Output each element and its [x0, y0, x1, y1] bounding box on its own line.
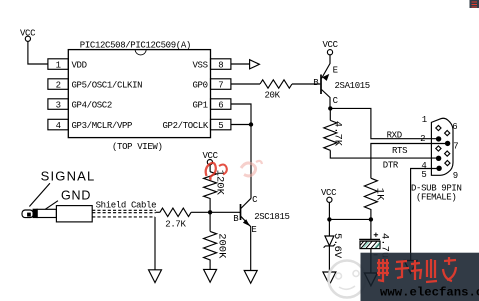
- CN1 hole 5 (GND): [436, 166, 441, 171]
- wire shield to ground: [154, 217, 156, 270]
- ground G2 below Q2: [244, 271, 257, 284]
- svg-text:200K: 200K: [215, 233, 227, 259]
- CN1 hole 1: [436, 125, 441, 130]
- pin 3 box: [48, 99, 68, 110]
- svg-text:2.7K: 2.7K: [165, 219, 186, 229]
- ground G6 below C1: [364, 273, 377, 286]
- wire DTR net: 4.7K to DB9 pin4: [330, 150, 438, 158]
- svg-text:1K: 1K: [373, 188, 385, 201]
- wire VCC4 rail: [329, 202, 371, 219]
- svg-text:4.7K: 4.7K: [332, 121, 344, 147]
- power VCC4 (supply rail): [327, 197, 332, 202]
- transistor Q1 2SA1015 PNP: [320, 75, 322, 95]
- resistor R3 1K: [364, 178, 377, 219]
- svg-text:VCC: VCC: [20, 28, 36, 38]
- svg-text:7: 7: [453, 142, 458, 152]
- power VCC1 top-left circle: [25, 36, 30, 41]
- node N3 (base divider junction): [208, 210, 212, 214]
- svg-text:5: 5: [218, 121, 223, 131]
- wire N2 to Q2 collector: [250, 125, 252, 199]
- CN1 hole 2 (RXD): [436, 136, 441, 141]
- svg-text:(TOP VIEW): (TOP VIEW): [112, 142, 163, 152]
- wire DB9 pin5 to ground: [411, 169, 440, 261]
- signal jack J1 (3.5mm plug): [22, 210, 33, 218]
- transistor Q2 2SC1815 NPN: [240, 204, 242, 220]
- resistor R2 4.7K: [324, 108, 337, 150]
- pin 4 box: [48, 119, 68, 130]
- wire shield cable (dashed): [92, 209, 156, 211]
- pin 2 box: [48, 79, 68, 90]
- svg-text:1: 1: [422, 115, 427, 125]
- svg-text:RTS: RTS: [392, 146, 407, 156]
- svg-text:SIGNAL: SIGNAL: [41, 169, 96, 184]
- node N5: [369, 217, 373, 221]
- CN1 hole 9: [445, 161, 450, 166]
- resistor R6 200K: [204, 212, 217, 269]
- svg-text:2SA1015: 2SA1015: [335, 81, 370, 91]
- svg-text:GP4/OSC2: GP4/OSC2: [72, 101, 112, 111]
- svg-text:2SC1815: 2SC1815: [254, 212, 289, 222]
- ground G4 below 200K: [204, 269, 217, 282]
- wire RXD net: node to DB9 pin2: [330, 108, 438, 138]
- svg-text:VDD: VDD: [72, 61, 87, 71]
- svg-text:4: 4: [56, 121, 61, 131]
- ground G7 (DB9 pin5): [404, 261, 417, 274]
- watermark red brand glyphs: [377, 257, 456, 282]
- svg-text:3: 3: [56, 101, 61, 111]
- label pointer GND: [45, 201, 58, 210]
- svg-text:VCC: VCC: [323, 40, 339, 50]
- node N1 (Q1 collector junction): [328, 106, 332, 110]
- svg-text:1: 1: [56, 61, 61, 71]
- Q2 emitter arrow (NPN out): [243, 219, 250, 226]
- power VCC2 above Q1: [327, 50, 332, 55]
- Q1 emitter arrow (PNP into base): [322, 74, 329, 81]
- svg-text:PIC12C508/PIC12C509(A): PIC12C508/PIC12C509(A): [80, 40, 191, 50]
- ground G1 (VSS arrow right): [250, 60, 260, 69]
- svg-text:GP5/OSC1/CLKIN: GP5/OSC1/CLKIN: [72, 81, 143, 91]
- svg-text:2: 2: [420, 134, 425, 144]
- CN1 hole 3: [436, 146, 441, 151]
- ground G3 (shield): [149, 270, 162, 283]
- capacitor C1 hatch: [360, 241, 380, 248]
- watermark dark box: [361, 253, 479, 301]
- node N4: [327, 217, 331, 221]
- faint logo circle: [329, 261, 366, 298]
- svg-text:VSS: VSS: [193, 61, 208, 71]
- svg-text:VCC: VCC: [321, 188, 337, 198]
- svg-text:Shield Cable: Shield Cable: [96, 200, 157, 210]
- wire pin8 VSS to ground: [231, 63, 250, 65]
- IC U1 PIC12C508/PIC12C509(A) body: [68, 50, 210, 138]
- wire VCC1 to pin1 VDD: [28, 41, 48, 64]
- CN1 hole 6: [445, 131, 450, 136]
- svg-text:6: 6: [452, 122, 457, 132]
- wire cable to 2.7K: [156, 211, 160, 213]
- svg-text:www.elecfans.com: www.elecfans.com: [380, 286, 479, 300]
- wire pin6 GP1 down: [231, 104, 251, 125]
- corner watermark top-right: [470, 0, 479, 8]
- ground G5 below zener: [323, 272, 336, 285]
- IC notch (top center index mark): [135, 50, 146, 55]
- pin 8 box: [211, 59, 231, 70]
- svg-text:GP0: GP0: [193, 81, 208, 91]
- CN1 hole 8: [445, 151, 450, 156]
- connector CN1 D-SUB 9PIN outline: [431, 118, 453, 175]
- svg-text:20K: 20K: [265, 90, 281, 100]
- CN1 hole 7 (RTS): [445, 141, 450, 146]
- zener D1 5.6V: [328, 219, 330, 236]
- pin 1 box: [48, 59, 68, 70]
- svg-text:GP3/MCLR/VPP: GP3/MCLR/VPP: [72, 121, 133, 131]
- svg-text:VCC: VCC: [203, 151, 219, 161]
- pin 7 box: [211, 79, 231, 90]
- pin 5 box: [211, 119, 231, 130]
- wire 20K to Q1 base: [292, 83, 320, 85]
- CN1 hole 4 (DTR): [436, 156, 441, 161]
- resistor R1 20K: [260, 80, 292, 88]
- svg-text:E: E: [251, 225, 256, 235]
- C1 minus sign: [373, 254, 377, 256]
- wire RTS net: DB9 pin7 to 1K: [371, 144, 448, 179]
- red watermark scribble near 120K: [206, 163, 227, 180]
- wire and ground ghost inside box: [364, 253, 417, 286]
- svg-text:6: 6: [218, 101, 223, 111]
- svg-text:RXD: RXD: [387, 131, 402, 141]
- node N2 (pins 5-6 junction): [249, 122, 253, 126]
- svg-text:GP2/TOCLK: GP2/TOCLK: [163, 121, 209, 131]
- svg-text:8: 8: [218, 61, 223, 71]
- svg-text:7: 7: [218, 81, 223, 91]
- pin 6 box: [211, 99, 231, 110]
- svg-text:2: 2: [56, 81, 61, 91]
- svg-text:GP1: GP1: [193, 101, 208, 111]
- capacitor C1 4.7uF: [370, 219, 372, 239]
- svg-text:(FEMALE): (FEMALE): [416, 193, 456, 203]
- label pointer SIGNAL: [29, 183, 50, 206]
- wire 2.7K to Q2 base: [191, 211, 240, 213]
- power VCC3 above 120K: [207, 160, 212, 165]
- svg-text:5: 5: [421, 170, 426, 180]
- resistor R5 120K: [204, 165, 217, 213]
- wire pin7 GP0 to 20K: [231, 83, 260, 85]
- C1 plus sign: [374, 233, 378, 237]
- svg-text:DTR: DTR: [383, 160, 399, 170]
- svg-text:GND: GND: [61, 188, 91, 202]
- svg-text:9: 9: [453, 171, 458, 181]
- wire pin5 GP2 join: [231, 124, 251, 126]
- resistor R4 2.7K: [160, 208, 191, 216]
- svg-text:5.6V: 5.6V: [331, 233, 343, 259]
- svg-text:E: E: [333, 66, 338, 76]
